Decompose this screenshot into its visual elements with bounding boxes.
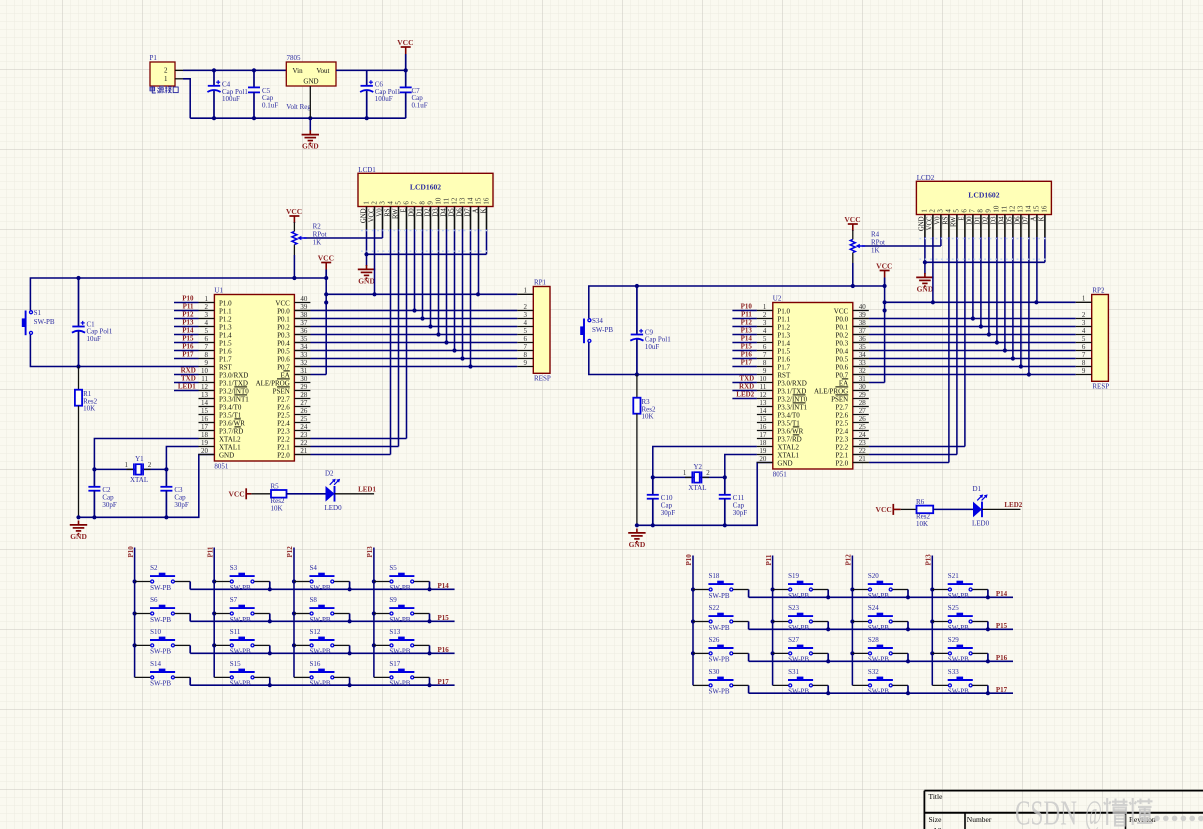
net label P17 [996, 686, 1008, 694]
net label P14 [438, 582, 450, 590]
junction [986, 595, 990, 599]
LCD header LCD1 LCD1602 [358, 166, 493, 229]
junction [252, 68, 256, 72]
svg-text:15: 15 [759, 415, 767, 423]
svg-text:VCC: VCC [368, 208, 375, 222]
capacitor C1 10uF [72, 278, 113, 367]
svg-text:S32: S32 [868, 668, 879, 676]
junction [308, 116, 312, 120]
svg-text:SW-PB: SW-PB [868, 688, 889, 696]
svg-text:EA: EA [280, 371, 289, 379]
svg-text:P2.5: P2.5 [836, 419, 849, 427]
svg-text:11: 11 [442, 197, 450, 204]
svg-text:D7: D7 [1023, 216, 1030, 225]
power port VCC (top) [397, 38, 413, 70]
svg-text:P0.3: P0.3 [836, 339, 849, 347]
compile marks [919, 258, 1048, 260]
svg-text:13: 13 [458, 197, 466, 205]
svg-text:VCC: VCC [275, 299, 290, 307]
switch S1 SW-PB (reset) [22, 309, 55, 335]
svg-text:P3.0/RXD: P3.0/RXD [219, 371, 248, 379]
svg-text:RXD: RXD [739, 383, 754, 391]
junction [164, 515, 168, 519]
junction [931, 300, 935, 304]
svg-text:P14: P14 [741, 335, 753, 343]
svg-text:RESP: RESP [1092, 383, 1109, 391]
svg-text:6: 6 [961, 209, 969, 213]
net label P10 (column) [127, 546, 135, 558]
svg-text:GND: GND [629, 540, 646, 549]
wire P0.1 to RP1 pin 3 [294, 318, 517, 320]
svg-text:P14: P14 [182, 327, 194, 335]
switch S33 SW-PB [932, 668, 988, 696]
svg-text:P11: P11 [741, 311, 752, 319]
svg-text:PSEN: PSEN [273, 387, 290, 395]
svg-text:P2.4: P2.4 [836, 427, 849, 435]
svg-text:SW-PB: SW-PB [709, 688, 730, 696]
svg-text:6: 6 [205, 335, 209, 343]
net label P11 [741, 311, 752, 319]
svg-text:17: 17 [201, 423, 209, 431]
LCD header LCD2 LCD1602 [916, 174, 1051, 237]
wire row bus net P16 [749, 660, 1013, 662]
switch S30 SW-PB [693, 668, 749, 696]
svg-text:S17: S17 [389, 660, 400, 668]
svg-text:0.1uF: 0.1uF [412, 102, 428, 110]
net label P12 [182, 311, 194, 319]
svg-text:D4: D4 [999, 216, 1006, 225]
net label P11 (column) [765, 554, 773, 565]
wire VCC rail to RST circuit (S1/C1) [30, 278, 326, 310]
svg-text:GND: GND [219, 451, 234, 459]
svg-text:39: 39 [859, 311, 867, 319]
wire column net P12 [293, 548, 295, 678]
svg-text:D2: D2 [983, 216, 990, 225]
svg-text:P3.2/INT0: P3.2/INT0 [777, 395, 807, 403]
svg-text:P1.0: P1.0 [777, 307, 790, 315]
svg-text:S24: S24 [868, 604, 879, 612]
svg-text:S10: S10 [150, 628, 161, 636]
svg-text:4: 4 [524, 319, 528, 327]
svg-text:31: 31 [859, 375, 867, 383]
svg-text:24: 24 [859, 431, 867, 439]
svg-text:25: 25 [300, 415, 308, 423]
svg-text:D0: D0 [967, 216, 974, 225]
capacitor C5 0.1uF [248, 70, 278, 118]
svg-text:P0.5: P0.5 [836, 355, 849, 363]
power port VCC (R4) [844, 215, 860, 231]
svg-text:14: 14 [201, 399, 209, 407]
wire net P13 at U1 pin 4 [174, 326, 199, 328]
wire P0.5 to RP1 pin 7 [294, 350, 517, 352]
svg-text:P10: P10 [741, 303, 753, 311]
wire VCC to R6 [901, 508, 917, 510]
svg-text:P11: P11 [183, 303, 194, 311]
svg-text:27: 27 [859, 407, 867, 415]
net label P16 [741, 351, 753, 359]
wire LCD2 D7 [1028, 237, 1030, 375]
svg-text:14: 14 [466, 197, 474, 205]
svg-text:P16: P16 [741, 351, 753, 359]
svg-text:P2.6: P2.6 [836, 411, 849, 419]
wire net P10 at U2 pin 1 [732, 310, 757, 312]
svg-text:P2.1: P2.1 [277, 443, 290, 451]
svg-text:6: 6 [763, 343, 767, 351]
junction [76, 276, 80, 280]
svg-text:SW-PB: SW-PB [389, 648, 410, 656]
wire LCD1 A pin [478, 229, 480, 294]
wire EA pin 31 [853, 382, 885, 384]
svg-text:Vin: Vin [293, 67, 304, 75]
svg-text:P15: P15 [438, 614, 450, 622]
svg-text:XTAL2: XTAL2 [219, 435, 241, 443]
svg-text:GND: GND [917, 284, 934, 293]
svg-text:SW-PB: SW-PB [150, 680, 171, 688]
wire VCC to R5 [251, 493, 271, 495]
svg-text:Volt Reg: Volt Reg [286, 103, 311, 111]
svg-text:29: 29 [300, 383, 308, 391]
junction [252, 116, 256, 120]
svg-text:P14: P14 [996, 590, 1008, 598]
wire LCD1 D1 [422, 229, 424, 319]
svg-text:P2.7: P2.7 [836, 403, 849, 411]
junction [986, 659, 990, 663]
svg-text:U1: U1 [214, 286, 223, 294]
resistor R6 Res2 10K [916, 498, 933, 528]
svg-text:SW-PB: SW-PB [868, 656, 889, 664]
svg-text:Y1: Y1 [135, 455, 144, 463]
wire net P11 at U1 pin 2 [174, 310, 199, 312]
svg-text:4: 4 [945, 209, 953, 213]
svg-text:SW-PB: SW-PB [709, 656, 730, 664]
svg-text:S21: S21 [948, 572, 959, 580]
junction [420, 316, 424, 320]
svg-text:33: 33 [859, 359, 867, 367]
potentiometer R4 RPot 1K [850, 230, 885, 286]
svg-text:P10: P10 [127, 546, 135, 558]
svg-text:P2.3: P2.3 [277, 427, 290, 435]
svg-text:4: 4 [205, 319, 209, 327]
wire LCD2 D6 [1020, 237, 1022, 367]
svg-text:P17: P17 [438, 678, 450, 686]
svg-text:EA: EA [839, 379, 848, 387]
svg-text:ALE/PROG: ALE/PROG [256, 379, 290, 387]
svg-text:P1.4: P1.4 [777, 339, 790, 347]
svg-text:ALE/PROG: ALE/PROG [814, 387, 848, 395]
junction [987, 332, 991, 336]
wire LCD2 D1 [980, 237, 982, 327]
wire to GND symbol [366, 254, 368, 266]
wire LCD1 V0 to R2 wiper [304, 229, 383, 238]
svg-text:XTAL: XTAL [688, 484, 706, 492]
svg-text:P2.2: P2.2 [277, 435, 290, 443]
svg-text:S29: S29 [948, 636, 959, 644]
wire net RXD at U1 pin 10 [174, 374, 199, 376]
switch S3 SW-PB [212, 564, 270, 592]
svg-text:GND: GND [358, 276, 375, 285]
svg-text:VCC: VCC [876, 505, 892, 514]
svg-text:10uF: 10uF [645, 343, 660, 351]
net label P12 (column) [845, 554, 853, 566]
wire P0.0 to RP1 pin 2 [294, 310, 517, 312]
LED D2 [325, 470, 377, 512]
svg-text:S25: S25 [948, 604, 959, 612]
svg-text:R5: R5 [271, 483, 280, 491]
junction [427, 683, 431, 687]
wire net LED2 at U2 pin 12 [732, 398, 757, 400]
svg-text:GND: GND [360, 208, 367, 223]
svg-text:GND: GND [919, 216, 926, 231]
resistor R5 Res2 10K [271, 483, 287, 513]
svg-text:14: 14 [759, 407, 767, 415]
wire net LED1 at U1 pin 12 [174, 390, 199, 392]
junction [364, 252, 368, 256]
svg-text:2: 2 [524, 303, 528, 311]
svg-text:36: 36 [300, 327, 308, 335]
wire net P15 at U1 pin 6 [174, 342, 199, 344]
svg-text:P3.5/T1: P3.5/T1 [219, 411, 242, 419]
svg-text:XTAL2: XTAL2 [777, 443, 799, 451]
wire column net P11 [213, 548, 215, 678]
wire net P17 at U1 pin 8 [174, 358, 199, 360]
svg-text:P1.3: P1.3 [777, 331, 790, 339]
svg-text:8: 8 [205, 351, 209, 359]
svg-text:6: 6 [402, 201, 410, 205]
svg-text:14: 14 [1025, 205, 1033, 213]
svg-text:S12: S12 [310, 628, 321, 636]
svg-text:100uF: 100uF [375, 95, 393, 103]
wire XTAL2 [94, 439, 198, 470]
net label P10 (column) [685, 554, 693, 566]
switch S12 SW-PB [292, 628, 350, 656]
svg-text:LED0: LED0 [325, 504, 343, 512]
svg-text:VCC: VCC [228, 489, 244, 498]
svg-text:10K: 10K [642, 413, 654, 421]
svg-text:P15: P15 [182, 335, 194, 343]
svg-text:9: 9 [524, 359, 528, 367]
junction [1019, 364, 1023, 368]
svg-text:GND: GND [777, 459, 792, 467]
svg-text:P17: P17 [996, 686, 1008, 694]
svg-text:VCC: VCC [927, 216, 934, 230]
svg-text:9: 9 [426, 201, 434, 205]
wire P0.2 to RP2 pin 4 [853, 334, 1076, 336]
junction [635, 284, 639, 288]
svg-text:VCC: VCC [876, 262, 892, 271]
svg-text:P0.1: P0.1 [836, 323, 849, 331]
svg-text:P1.0: P1.0 [219, 299, 232, 307]
svg-text:SW-PB: SW-PB [788, 656, 809, 664]
svg-text:SW-PB: SW-PB [948, 592, 969, 600]
svg-text:D2: D2 [424, 208, 431, 217]
junction [979, 324, 983, 328]
power port GND (LCD2) [916, 273, 934, 293]
wire R6 to D1 [933, 508, 973, 510]
wire crystal row [94, 468, 166, 470]
switch S28 SW-PB [850, 636, 908, 664]
wire LCD2 VCC pin [932, 237, 934, 302]
wire ground rail (crystal) [79, 455, 215, 518]
svg-text:37: 37 [859, 327, 867, 335]
wire P2.0 to LCD2 pin 4 [853, 237, 949, 463]
wire net P10 at U1 pin 1 [174, 302, 199, 304]
power port VCC (R5) [228, 488, 251, 499]
net label LED2 [736, 391, 754, 399]
junction [292, 276, 296, 280]
svg-text:P11: P11 [765, 554, 773, 565]
svg-text:1: 1 [125, 461, 129, 469]
svg-text:8: 8 [524, 351, 528, 359]
svg-text:10uF: 10uF [87, 335, 102, 343]
svg-text:24: 24 [300, 423, 308, 431]
switch S26 SW-PB [691, 636, 749, 664]
switch S22 SW-PB [691, 604, 749, 632]
junction [635, 372, 639, 376]
svg-text:2: 2 [763, 311, 767, 319]
junction [826, 595, 830, 599]
svg-text:32: 32 [859, 367, 867, 375]
svg-text:RPot: RPot [871, 239, 885, 247]
switch S27 SW-PB [771, 636, 829, 664]
svg-text:P1.1: P1.1 [219, 307, 232, 315]
wire row bus net P16 [190, 652, 454, 654]
ground wire under 7805 [309, 118, 311, 131]
svg-text:VCC: VCC [397, 38, 413, 47]
svg-text:11: 11 [1001, 205, 1009, 212]
resistor pack RP2 RESP [1076, 287, 1110, 391]
junction [404, 68, 408, 72]
svg-text:RW: RW [951, 216, 958, 227]
svg-text:SW-PB: SW-PB [150, 584, 171, 592]
svg-text:LED2: LED2 [1004, 501, 1022, 509]
switch S7 SW-PB [212, 596, 270, 624]
svg-text:1: 1 [763, 303, 767, 311]
wire LCD1 D7 [470, 229, 472, 367]
compile marks [361, 230, 490, 232]
svg-text:XTAL1: XTAL1 [219, 443, 241, 451]
svg-text:CSDN: CSDN [1015, 794, 1077, 829]
switch S8 SW-PB [292, 596, 350, 624]
wire LCD1 D5 [454, 229, 456, 351]
svg-text:12: 12 [450, 197, 458, 205]
svg-text:2: 2 [205, 303, 209, 311]
wire RST net [589, 343, 757, 375]
svg-text:D6: D6 [1015, 216, 1022, 225]
svg-text:SW-PB: SW-PB [389, 616, 410, 624]
svg-text:SW-PB: SW-PB [948, 624, 969, 632]
wire row bus net P15 [749, 628, 1013, 630]
svg-text:5: 5 [1082, 335, 1086, 343]
switch S9 SW-PB [372, 596, 430, 624]
junction [851, 284, 855, 288]
svg-text:28: 28 [859, 399, 867, 407]
junction [212, 116, 216, 120]
svg-text:3: 3 [937, 209, 945, 213]
svg-text:21: 21 [859, 455, 867, 463]
svg-text:S18: S18 [709, 572, 720, 580]
svg-text:Number: Number [967, 815, 992, 824]
svg-text:26: 26 [859, 415, 867, 423]
wire VCC to RP pin 1 [326, 293, 517, 295]
svg-text:8: 8 [418, 201, 426, 205]
svg-text:7: 7 [969, 209, 977, 213]
wire P0.3 to RP2 pin 5 [853, 342, 1076, 344]
net label P16 [182, 343, 194, 351]
net label P11 (column) [206, 546, 214, 557]
svg-text:1: 1 [362, 201, 370, 205]
power port GND (power section) [302, 130, 320, 150]
svg-text:LED1: LED1 [178, 383, 196, 391]
svg-text:SW-PB: SW-PB [389, 680, 410, 688]
svg-text:P17: P17 [741, 359, 753, 367]
capacitor C3 30pF [160, 469, 189, 517]
svg-text:22: 22 [859, 447, 867, 455]
svg-text:P1.5: P1.5 [219, 339, 232, 347]
wire LCD2 D5 [1012, 237, 1014, 359]
switch S4 SW-PB [292, 564, 350, 592]
svg-text:SW-PB: SW-PB [310, 584, 331, 592]
junction [324, 292, 328, 296]
resistor R3 10K [633, 375, 656, 526]
svg-text:10K: 10K [916, 520, 928, 528]
svg-text:16: 16 [201, 415, 209, 423]
power port VCC (R6) [876, 504, 901, 515]
junction [427, 587, 431, 591]
svg-text:S13: S13 [389, 628, 400, 636]
svg-text:SW-PB: SW-PB [788, 624, 809, 632]
svg-text:V0: V0 [376, 208, 383, 217]
svg-text:Size: Size [929, 815, 943, 824]
svg-text:35: 35 [859, 343, 867, 351]
net label P10 [182, 295, 194, 303]
svg-text:P1.2: P1.2 [219, 315, 232, 323]
junction [651, 475, 655, 479]
svg-text:1: 1 [205, 295, 209, 303]
svg-text:R4: R4 [871, 231, 880, 239]
svg-text:SW-PB: SW-PB [310, 680, 331, 688]
svg-text:9: 9 [1082, 367, 1086, 375]
pin 7805 GND [309, 86, 311, 118]
svg-text:P3.7/RD: P3.7/RD [219, 427, 243, 435]
svg-text:12: 12 [201, 383, 209, 391]
svg-text:100uF: 100uF [222, 95, 240, 103]
svg-text:7: 7 [205, 343, 209, 351]
svg-text:40: 40 [300, 295, 308, 303]
wire P0.6 to RP2 pin 8 [853, 366, 1076, 368]
switch S29 SW-PB [930, 636, 988, 664]
svg-text:2: 2 [1082, 311, 1086, 319]
svg-text:P12: P12 [286, 546, 294, 558]
svg-text:3: 3 [378, 201, 386, 205]
svg-text:S6: S6 [150, 596, 158, 604]
svg-text:LED1: LED1 [358, 486, 376, 494]
junction [986, 627, 990, 631]
junction [723, 475, 727, 479]
net label P13 (column) [366, 546, 374, 558]
switch S10 SW-PB [133, 628, 191, 656]
junction [460, 356, 464, 360]
svg-text:S31: S31 [788, 668, 799, 676]
junction [635, 523, 639, 527]
svg-text:LCD1602: LCD1602 [410, 182, 441, 191]
junction [468, 364, 472, 368]
svg-text:39: 39 [300, 303, 308, 311]
junction [348, 619, 352, 623]
net label P11 [183, 303, 194, 311]
svg-text:XTAL1: XTAL1 [777, 451, 799, 459]
net label P15 [741, 343, 753, 351]
svg-text:S19: S19 [788, 572, 799, 580]
